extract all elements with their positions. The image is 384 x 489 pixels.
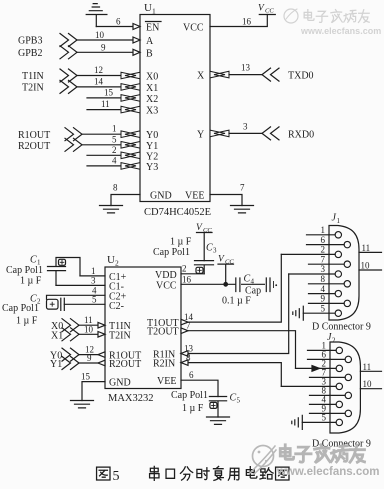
pin number 14 (U2) — [184, 312, 194, 322]
J2 pin label 8 — [322, 386, 327, 396]
U1 pin name X3 — [146, 106, 158, 117]
pin number 5 (U2) — [92, 294, 97, 304]
J1 pin 7 circle — [344, 261, 350, 267]
svg-text:10: 10 — [361, 261, 371, 271]
svg-text:Cap Pol1: Cap Pol1 — [171, 390, 208, 401]
svg-text:GND: GND — [109, 378, 131, 389]
U2 pin name GND — [109, 378, 131, 389]
pin number 11 — [101, 99, 110, 109]
wire VCC pin 16 — [210, 15, 267, 27]
svg-text:2: 2 — [112, 145, 117, 155]
caption 时 — [197, 468, 209, 480]
ground (U1 pin 7) — [231, 206, 254, 213]
ground (top, above U1, flipped) — [86, 4, 107, 27]
Vcc label (above C3) — [196, 223, 212, 234]
wire T1OUT pin 14 to J1 pin 2 — [181, 254, 281, 322]
label C3 — [206, 243, 217, 255]
U2 pin name C1+ — [109, 272, 127, 283]
svg-text:T2IN: T2IN — [109, 330, 131, 341]
svg-text:Y0: Y0 — [146, 130, 158, 141]
watermark logo (top right, faint) — [284, 9, 298, 23]
svg-text:6: 6 — [189, 370, 194, 380]
svg-text:A: A — [146, 36, 154, 47]
arrow into J2 pin 2 — [312, 366, 320, 372]
wire R1IN pin 13 to J1 pin 3 — [181, 274, 289, 354]
caption 图 (end) — [276, 467, 289, 480]
junction dot VCC — [223, 282, 228, 287]
power Vcc (above C3) — [197, 233, 213, 261]
watermark url www.elecfans.com (bottom right) — [276, 466, 379, 478]
ground (J1 pin 5, sideways) — [293, 306, 304, 320]
U2 pin name C2+ — [109, 292, 127, 303]
svg-text:11: 11 — [362, 243, 371, 253]
pin number 5 — [112, 134, 117, 144]
pin number 6 (U2) — [189, 370, 194, 380]
wire Y pin 3 — [229, 132, 262, 134]
label R1OUT — [18, 130, 50, 141]
label Cap Pol1 (C5) — [171, 390, 208, 401]
svg-text:R2OUT: R2OUT — [18, 141, 50, 152]
svg-text:7: 7 — [321, 254, 326, 264]
svg-text:2: 2 — [332, 337, 336, 345]
svg-text:Y2: Y2 — [146, 151, 158, 162]
wire R2OUT pin 9 — [79, 362, 98, 364]
svg-text:5: 5 — [112, 134, 117, 144]
label Cap (C4) — [245, 285, 261, 296]
wire X1 pin 14 — [77, 86, 122, 88]
J2 pin 5 circle — [336, 419, 342, 425]
port chevron R1OUT — [65, 128, 82, 141]
caption 电 — [246, 467, 257, 478]
Vcc label (above VCC junction) — [218, 255, 234, 266]
wire R2IN pin 8 to J2 pin 3 — [181, 363, 281, 387]
J1 tab label 11 — [362, 243, 371, 253]
U2 pin name R1OUT — [109, 351, 141, 362]
J2 pin 2 circle — [336, 365, 342, 371]
J2 pin label 5 — [322, 413, 327, 423]
svg-text:X: X — [197, 71, 205, 82]
svg-text:Cap Pol1: Cap Pol1 — [2, 303, 39, 314]
wire A pin 10 — [77, 39, 133, 41]
svg-text:C: C — [30, 255, 37, 266]
wire T1IN pin 11 — [79, 324, 98, 326]
svg-text:12: 12 — [94, 65, 103, 75]
wire EN pin 6 — [96, 26, 133, 28]
U1 pin name VEE — [185, 191, 204, 202]
pin number 16 (U2) — [182, 274, 192, 284]
svg-text:C: C — [244, 273, 251, 284]
pin number 7 — [240, 183, 245, 193]
U2 pin name C1- — [109, 281, 124, 292]
label T2IN — [22, 82, 44, 93]
label C4 — [244, 273, 255, 285]
svg-text:RXD0: RXD0 — [288, 129, 314, 140]
svg-text:5: 5 — [237, 397, 241, 405]
svg-text:VCC: VCC — [183, 23, 204, 34]
pin number 10 (U2) — [84, 324, 94, 334]
svg-text:3: 3 — [213, 247, 217, 255]
svg-text:9: 9 — [101, 42, 106, 52]
power Vcc (top right) — [259, 14, 275, 16]
wire X2 pin 15 — [87, 97, 122, 99]
svg-text:10: 10 — [95, 30, 105, 40]
label X1 — [51, 330, 63, 341]
pin number 12 (U2) — [85, 345, 94, 355]
U1 pin name X — [197, 71, 205, 82]
svg-text:3: 3 — [243, 121, 248, 131]
U2 pin name VDD — [155, 270, 177, 281]
wire Y1 pin 5 — [82, 144, 122, 146]
J2 wire pin 2 (from T2OUT) — [296, 367, 337, 369]
J1 stub pin 9 — [309, 302, 345, 304]
U1 pin name Y0 — [146, 130, 158, 141]
wire VEE pin 7 — [210, 195, 242, 206]
U1 bidir pin X1 — [121, 84, 140, 91]
label C2 — [30, 294, 41, 306]
svg-text:7: 7 — [186, 321, 191, 331]
svg-text:R2OUT: R2OUT — [109, 359, 141, 370]
Vcc label (top right) — [258, 4, 274, 15]
wire VDD pin 2 — [181, 273, 204, 275]
caption 串 — [150, 466, 159, 480]
J1 stub pin 5 — [303, 312, 335, 314]
label Y1 — [50, 359, 62, 370]
J2 pin label 2 — [322, 359, 327, 369]
J2 tab wire 11 — [360, 370, 381, 372]
pin number 2 — [112, 145, 117, 155]
watermark text 电子发烧友 (bottom right) — [280, 445, 364, 462]
svg-text:1: 1 — [337, 217, 341, 225]
pin number 14 — [94, 76, 104, 86]
J1 stub pin 6 — [307, 244, 345, 246]
U2 pin name VEE — [157, 376, 176, 387]
U1 pin name VCC — [183, 23, 204, 34]
svg-text:TXD0: TXD0 — [288, 71, 314, 82]
J1 pin 2 circle — [335, 251, 341, 257]
J1 pin label 1 — [321, 225, 326, 235]
J2 pin 9 circle — [345, 410, 351, 416]
port chevron Y0 — [62, 348, 79, 361]
U1 pin name Y1 — [146, 141, 158, 152]
U1 refdes U1 — [144, 2, 156, 16]
pin number 10 — [95, 30, 105, 40]
svg-text:V: V — [258, 4, 265, 14]
J1 pin 3 circle — [335, 271, 341, 277]
watermark logo (bottom right) — [250, 446, 276, 475]
J2 tab wire 10 — [360, 388, 381, 390]
svg-text:1 µ F: 1 µ F — [170, 237, 192, 248]
svg-text:5: 5 — [322, 413, 327, 423]
U2 input arrow R1IN — [181, 351, 188, 357]
svg-text:R2IN: R2IN — [153, 359, 175, 370]
svg-text:X3: X3 — [146, 106, 158, 117]
capacitor C5 (Cap Pol1 1uF) — [209, 397, 226, 418]
svg-text:Y3: Y3 — [146, 162, 158, 173]
connector J2 D-shape — [330, 342, 360, 433]
pin number 1 (U2) — [91, 266, 96, 276]
J1 pin label 9 — [321, 294, 326, 304]
label TXD0 — [288, 71, 314, 82]
pin number 1 — [112, 124, 117, 134]
J1 wire pin 2 (to T1OUT) — [281, 253, 335, 255]
svg-text:9: 9 — [87, 353, 92, 363]
svg-text:EN: EN — [146, 23, 159, 34]
caption 路 — [260, 468, 273, 479]
U1 CD74HC4052E body — [140, 15, 210, 202]
U1 bidir pin X — [210, 71, 229, 78]
U2 output arrow T1OUT — [181, 319, 188, 325]
wire R1OUT pin 12 — [79, 354, 98, 356]
J2 stub pin 8 — [310, 394, 346, 396]
J2 stub pin 5 — [302, 421, 336, 423]
J2 pin label 7 — [322, 368, 327, 378]
svg-text:VCC: VCC — [156, 280, 177, 291]
U1 pin name EN (with overline) — [146, 23, 159, 34]
label T1IN — [22, 71, 44, 82]
svg-text:8: 8 — [113, 183, 118, 193]
svg-text:www.elecfans.com: www.elecfans.com — [276, 466, 379, 478]
svg-text:VDD: VDD — [155, 270, 177, 281]
J2 stub pin 4 — [310, 403, 337, 405]
J2 stub pin 9 — [310, 412, 346, 414]
svg-text:R1OUT: R1OUT — [18, 130, 50, 141]
J2 pin 3 circle — [336, 383, 342, 389]
port chevron GPB2 — [60, 46, 77, 59]
U2 pin name T1IN — [109, 321, 131, 332]
svg-text:CC: CC — [203, 227, 212, 234]
port chevron TXD0 — [262, 68, 279, 81]
watermark url (top right, faint) — [300, 26, 381, 36]
pin number 8 — [113, 183, 118, 193]
label C5 — [230, 393, 241, 405]
label 0.1uF (C4) — [222, 296, 251, 307]
pin number 15 (U2) — [81, 372, 91, 382]
U1 bidir pin Y1 — [121, 142, 140, 149]
label R2OUT — [18, 141, 50, 152]
svg-text:CD74HC4052E: CD74HC4052E — [144, 207, 211, 218]
J2 stub pin 1 — [308, 349, 337, 351]
U1 pin name B — [146, 48, 153, 59]
U1 pin name X2 — [146, 94, 158, 105]
J1 pin label 2 — [321, 245, 326, 255]
svg-text:0.1 µ F: 0.1 µ F — [222, 296, 251, 307]
J2 stub pin 7 — [310, 376, 346, 378]
U2 pin name T1OUT — [147, 318, 179, 329]
capacitor C3 (Cap Pol1 1uF) — [195, 261, 214, 274]
port chevron T1IN — [60, 69, 77, 82]
J1 pin 1 circle — [335, 232, 341, 238]
J1 pin label 5 — [321, 303, 326, 313]
pin number 3 — [243, 121, 248, 131]
wire T2OUT pin 7 to J2 pin 2 — [181, 331, 296, 369]
J1 stub pin 7 — [309, 263, 345, 265]
label GPB2 — [18, 48, 42, 59]
svg-text:2: 2 — [115, 259, 119, 268]
wire B pin 9 — [77, 51, 133, 53]
J1 stub pin 4 — [309, 293, 336, 295]
J2 stub pin 6 — [308, 358, 346, 360]
ground (below C5) — [207, 417, 230, 424]
J2 pin 8 circle — [345, 392, 351, 398]
label Cap Pol1 (C3) — [153, 247, 190, 258]
svg-text:C: C — [206, 243, 213, 254]
ground (U2 pin 15) — [71, 401, 94, 408]
J1 tab label 10 — [361, 261, 371, 271]
svg-text:B: B — [146, 48, 153, 59]
J1 pin 4 circle — [335, 290, 341, 296]
J2 tab label 10 — [363, 379, 373, 389]
caption 用 — [228, 468, 239, 480]
svg-text:1: 1 — [112, 124, 117, 134]
pin number 9 (U2) — [87, 353, 92, 363]
wire T2IN pin 10 — [79, 333, 98, 335]
U1 bidir pin X0 — [121, 72, 140, 79]
J2 refdes — [327, 332, 336, 345]
port chevron RXD0 — [262, 127, 279, 140]
U1 input arrow EN — [133, 24, 140, 30]
label 1uF (C2) — [16, 316, 38, 327]
pin number 13 (U2) — [184, 344, 194, 354]
J1 pin label 7 — [321, 254, 326, 264]
svg-text:V: V — [218, 255, 225, 265]
svg-text:1 µ F: 1 µ F — [182, 403, 204, 414]
svg-text:15: 15 — [81, 372, 91, 382]
U1 input arrow B — [133, 49, 140, 55]
svg-text:CC: CC — [225, 259, 234, 266]
svg-text:7: 7 — [240, 183, 245, 193]
svg-text:3: 3 — [321, 264, 326, 274]
pin number 2 (U2) — [182, 263, 187, 273]
U1 pin name X1 — [146, 83, 158, 94]
svg-text:3: 3 — [91, 275, 96, 285]
J2 name D Connector 9 — [312, 439, 371, 450]
svg-text:5: 5 — [113, 469, 120, 484]
port chevron GPB3 — [60, 34, 77, 47]
U2 refdes U2 — [107, 254, 119, 268]
port chevron T2IN — [60, 80, 77, 93]
svg-text:MAX3232: MAX3232 — [108, 393, 154, 404]
J2 pin label 9 — [322, 404, 327, 414]
label 1uF (C1) — [20, 275, 42, 286]
wire Y3 pin 4 — [87, 165, 122, 167]
svg-text:X1: X1 — [51, 330, 63, 341]
pin number 15 — [104, 87, 114, 97]
label Y0 — [50, 351, 62, 362]
svg-text:T2IN: T2IN — [22, 82, 44, 93]
wire GND pin 15 — [82, 382, 105, 401]
caption 图 (figure) — [97, 467, 110, 480]
U1 bidir pin X3 — [121, 106, 140, 113]
svg-text:C: C — [230, 393, 237, 404]
svg-text:13: 13 — [241, 63, 251, 73]
J1 pin 9 circle — [344, 300, 350, 306]
svg-text:1 µ F: 1 µ F — [20, 275, 42, 286]
pin number 3 (U2) — [91, 275, 96, 285]
pin number 9 — [101, 42, 106, 52]
svg-text:5: 5 — [321, 303, 326, 313]
pin number 4 — [112, 155, 117, 165]
port chevron X0 — [62, 319, 79, 332]
svg-text:X0: X0 — [146, 72, 158, 83]
wire X0 pin 12 — [77, 75, 122, 77]
svg-text:GPB3: GPB3 — [18, 36, 42, 47]
U2 pin name R2IN — [153, 359, 175, 370]
svg-text:11: 11 — [363, 362, 372, 372]
caption 分 — [180, 467, 192, 480]
wire Y0 pin 1 — [82, 133, 122, 135]
svg-text:VEE: VEE — [185, 191, 204, 202]
U2 pin name T2OUT — [147, 327, 179, 338]
connector J1 D-shape — [329, 226, 359, 321]
J2 pin label 4 — [322, 395, 327, 405]
U1 pin name Y3 — [146, 162, 158, 173]
U2 output arrow R1OUT — [98, 352, 105, 358]
U2 input arrow T2IN — [98, 332, 105, 338]
U2 pin name R2OUT — [109, 359, 141, 370]
J2 pin label 3 — [322, 377, 327, 387]
J1 stub pin 1 — [307, 234, 336, 236]
svg-text:Y1: Y1 — [50, 359, 62, 370]
J1 stub pin 8 — [309, 283, 345, 285]
J2 wire pin 3 (from R2IN) — [281, 385, 336, 387]
J1 name D Connector 9 — [312, 322, 371, 333]
watermark text 电子发烧友 (top right, faint) — [304, 10, 369, 23]
svg-text:VEE: VEE — [157, 376, 176, 387]
U1 pin name GND — [150, 191, 172, 202]
label X0 — [51, 321, 63, 332]
J2 pin 1 circle — [336, 347, 342, 353]
U1 bidir pin Y2 — [121, 152, 140, 159]
pin number 13 — [241, 63, 251, 73]
svg-text:C2-: C2- — [109, 301, 124, 312]
pin number 8 (U2) — [186, 353, 191, 363]
svg-text:16: 16 — [242, 17, 252, 27]
svg-text:16: 16 — [182, 274, 192, 284]
pin number 7 (U2) — [186, 321, 191, 331]
svg-text:6: 6 — [321, 235, 326, 245]
U1 part name CD74HC4052E — [144, 207, 211, 218]
J1 pin 6 circle — [344, 241, 350, 247]
J1 refdes — [332, 213, 341, 226]
svg-text:1: 1 — [91, 266, 96, 276]
U2 input arrow T1IN — [98, 322, 105, 328]
J2 pin 7 circle — [345, 374, 351, 380]
power Vcc (above VCC junction) — [218, 264, 234, 284]
label 1uF (C3) — [170, 237, 192, 248]
svg-text:U: U — [107, 254, 115, 266]
capacitor C4 (Cap 0.1uF) — [236, 278, 277, 292]
caption 口 — [166, 469, 175, 478]
ground (J2 pin 5, sideways) — [292, 415, 303, 429]
svg-text:V: V — [196, 223, 203, 233]
label RXD0 — [288, 129, 314, 140]
U1 bidir pin Y0 — [121, 131, 140, 138]
wire Y2 pin 2 — [87, 154, 122, 156]
svg-text:CC: CC — [265, 8, 274, 15]
svg-text:X1: X1 — [146, 83, 158, 94]
svg-text:4: 4 — [251, 277, 255, 285]
J1 wire pin 3 (to R1IN) — [289, 273, 335, 275]
label Cap Pol1 (C2) — [2, 303, 39, 314]
wire GND pin 8 — [111, 195, 140, 206]
svg-text:9: 9 — [321, 294, 326, 304]
caption 5 — [113, 469, 120, 484]
svg-text:5: 5 — [92, 294, 97, 304]
wire VCC pin 16 — [181, 283, 235, 285]
J1 pin label 4 — [321, 284, 326, 294]
port chevron Y1 — [62, 357, 79, 370]
svg-text:Cap Pol1: Cap Pol1 — [153, 247, 190, 258]
